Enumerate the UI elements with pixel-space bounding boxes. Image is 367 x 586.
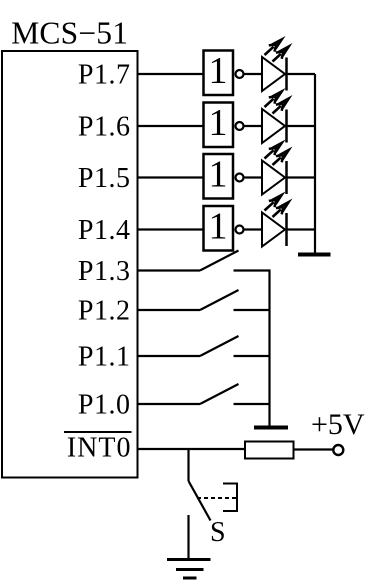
wire switch K3 contact to switch rail <box>234 355 271 357</box>
svg-text:P1.4: P1.4 <box>78 215 131 246</box>
wire inverter G4 output to LED VL4 anode <box>244 228 263 230</box>
wire LED VL3 cathode to right rail <box>287 176 315 178</box>
svg-text:INT0: INT0 <box>67 433 132 464</box>
wire right cathode rail <box>314 74 316 253</box>
switch K3 lever (open) <box>200 336 239 356</box>
pushbutton S actuator link (dashed) <box>197 497 236 499</box>
wire P1.0 to switch K4 <box>137 403 200 405</box>
+5V terminal circle <box>333 445 343 455</box>
svg-text:P1.3: P1.3 <box>78 256 131 287</box>
wire node A down to pushbutton S <box>187 449 189 481</box>
svg-text:P1.7: P1.7 <box>78 60 131 91</box>
svg-text:P1.0: P1.0 <box>78 390 131 421</box>
svg-text:1: 1 <box>209 102 228 144</box>
INT0 overline <box>64 431 132 433</box>
inverter G2 box <box>204 103 234 148</box>
LED VL3 emission arrow b <box>278 147 293 161</box>
svg-text:+5V: +5V <box>311 408 365 441</box>
LED VL2 emission arrow a <box>271 88 286 102</box>
inverter G3 output bubble <box>236 174 244 182</box>
svg-text:P1.1: P1.1 <box>78 342 131 373</box>
LED VL4 emission arrow a <box>271 192 286 206</box>
inverter G1 output bubble <box>236 70 244 78</box>
svg-text:P1.6: P1.6 <box>78 112 131 143</box>
svg-text:P1.5: P1.5 <box>78 163 131 194</box>
switch K2 lever (open) <box>200 290 239 310</box>
ground bar for switch rail <box>254 426 288 430</box>
LED VL4 emission arrow b <box>278 199 293 213</box>
inverter G4 output bubble <box>236 226 244 234</box>
wire resistor R1 to +5V terminal <box>294 448 333 450</box>
chip U1 MCS-51 outline <box>2 51 138 478</box>
LED VL2 triangle <box>262 109 285 143</box>
wire P1.3 to switch K1 <box>137 269 200 271</box>
LED VL3 emission arrow a <box>271 140 286 154</box>
LED VL1 emission arrow a <box>271 36 286 50</box>
LED VL1 triangle <box>262 57 285 91</box>
wire P1.4 to inverter G4 input <box>137 228 204 230</box>
wire LED VL4 cathode to right rail <box>287 228 315 230</box>
wire inverter G3 output to LED VL3 anode <box>244 176 263 178</box>
wire switch K2 contact to switch rail <box>234 309 271 311</box>
wire inverter G2 output to LED VL2 anode <box>244 125 263 127</box>
wire switch common rail <box>268 271 270 426</box>
earth ground symbol <box>167 560 211 579</box>
wire INT0 to resistor R1 and node A junction <box>137 448 245 450</box>
wire inverter G1 output to LED VL1 anode <box>244 73 263 75</box>
svg-text:P1.2: P1.2 <box>78 296 131 327</box>
LED VL3 triangle <box>262 161 285 195</box>
svg-text:S: S <box>210 517 226 548</box>
wire P1.2 to switch K2 <box>137 309 200 311</box>
wire LED VL2 cathode to right rail <box>287 125 315 127</box>
svg-text:MCS−51: MCS−51 <box>11 16 128 51</box>
LED VL1 cathode bar <box>285 58 288 91</box>
pushbutton S lever (open) <box>189 481 211 521</box>
resistor R1 (pull-up) <box>245 442 294 459</box>
ground bar for LED rail <box>298 253 331 257</box>
LED VL3 cathode bar <box>285 161 288 194</box>
switch K4 lever (open) <box>200 384 239 404</box>
LED VL2 cathode bar <box>285 110 288 143</box>
inverter G2 output bubble <box>236 122 244 130</box>
pushbutton S actuator bracket <box>223 484 237 512</box>
svg-text:1: 1 <box>209 206 228 248</box>
LED VL4 triangle <box>262 213 285 247</box>
wire switch K4 contact to switch rail <box>234 403 271 405</box>
wire LED VL1 cathode to right rail <box>287 73 315 75</box>
svg-text:1: 1 <box>209 50 228 92</box>
inverter G4 box <box>204 206 234 251</box>
inverter G1 box <box>204 51 234 96</box>
inverter G3 box <box>204 154 234 199</box>
svg-text:1: 1 <box>209 154 228 196</box>
wire P1.1 to switch K3 <box>137 355 200 357</box>
LED VL1 emission arrow b <box>278 43 293 57</box>
LED VL2 emission arrow b <box>278 95 293 109</box>
wire P1.6 to inverter G2 input <box>137 125 204 127</box>
wire pushbutton S fixed contact to ground <box>187 515 189 559</box>
wire switch K1 contact to switch rail <box>234 269 271 271</box>
LED VL4 cathode bar <box>285 213 288 246</box>
wire P1.5 to inverter G3 input <box>137 176 204 178</box>
switch K1 lever (open) <box>200 251 239 271</box>
wire P1.7 to inverter G1 input <box>137 73 204 75</box>
